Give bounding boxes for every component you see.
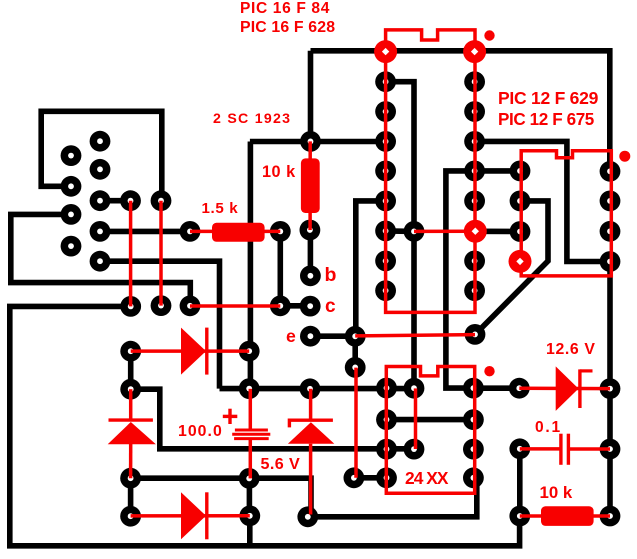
- red pad U1 mid: [464, 220, 487, 243]
- wire bottom rail to zener node: [131, 478, 311, 517]
- pad D3 top: [120, 379, 141, 400]
- diode D3: [108, 389, 156, 478]
- pad U1 pin9: [375, 280, 396, 301]
- wire pin2 jog: [386, 82, 414, 389]
- pad row16 c: [463, 467, 484, 488]
- wire zener feed: [473, 385, 519, 391]
- pad R1 right: [270, 221, 291, 242]
- pin1 dot U2: [619, 151, 630, 162]
- pad U1 pin17: [464, 71, 485, 92]
- red pad pin1 U1 left: [374, 40, 397, 63]
- wire row 16 link: [354, 475, 387, 481]
- pad connector B5: [90, 251, 111, 272]
- wire red link 7: [355, 335, 475, 336]
- wire ground run left: [11, 214, 191, 305]
- pad connector A1: [61, 145, 82, 166]
- pad R3 right: [600, 506, 621, 527]
- pad U2 pin3: [510, 221, 531, 242]
- pad C1 bottom: [239, 468, 260, 489]
- wire red link 1: [129, 201, 133, 307]
- pad U2 pin7: [600, 191, 621, 212]
- pad connector A3: [61, 204, 82, 225]
- pad node E3: [180, 295, 201, 316]
- wire diagonal pic12 pin5: [475, 201, 548, 334]
- pad connector A4: [61, 236, 82, 257]
- pad U3 pin8: [463, 378, 484, 399]
- label PIC 12 F 675: [498, 111, 594, 128]
- pad R3 left: [509, 506, 530, 527]
- pad R2 bottom: [300, 220, 321, 241]
- pad U3 pin7: [463, 409, 484, 430]
- pad node E1: [120, 296, 141, 317]
- pad diag node: [465, 324, 486, 345]
- pad row14 c: [463, 439, 484, 460]
- wire c stub: [280, 303, 310, 309]
- pad row16 a: [344, 467, 365, 488]
- pad U2 pin5: [600, 251, 621, 272]
- wire long vertical x250: [248, 142, 254, 389]
- pad row14 b: [404, 439, 425, 460]
- pad D1 right: [239, 341, 260, 362]
- red pad U2: [509, 250, 532, 273]
- capacitor C1 100uF electrolytic: [223, 389, 270, 479]
- wire bottom bus to 24xx pin: [308, 478, 477, 517]
- wire pic16 pin4 to pic12: [475, 141, 610, 261]
- diode D2: [131, 492, 250, 539]
- pad node G1: [404, 378, 425, 399]
- wire red link 4: [414, 229, 475, 233]
- pad node C2: [151, 190, 172, 211]
- pad U3 pin1: [376, 378, 397, 399]
- pad U1 pin14: [464, 161, 485, 182]
- pad U1 pin6: [375, 191, 396, 212]
- wire bottom border ground: [10, 306, 520, 545]
- pad row16 b: [376, 467, 397, 488]
- pad connector A2: [61, 176, 82, 197]
- label 24 XX: [405, 470, 448, 487]
- pad U1 pin16: [464, 101, 485, 122]
- pad Q1 c: [300, 296, 321, 317]
- wire pin8 link: [386, 228, 414, 234]
- socket outline 24XX U3: [386, 367, 474, 494]
- pad U2 pin2: [510, 191, 531, 212]
- pad Q1 b: [300, 265, 321, 286]
- label PIC 12 F 629: [498, 90, 598, 108]
- pad node C1: [120, 190, 141, 211]
- wire cap to border: [247, 516, 253, 546]
- wire left bus down: [100, 261, 220, 388]
- pad connector B3: [90, 190, 111, 211]
- pad U1 pin13: [464, 191, 485, 212]
- pad U1 pin2: [375, 71, 396, 92]
- wire connector link: [100, 198, 131, 204]
- pad node E4: [270, 295, 291, 316]
- pad D2 left: [120, 506, 141, 527]
- wire red link 2: [159, 201, 163, 306]
- wire emitter stub: [310, 333, 355, 339]
- wire collector drop: [308, 51, 314, 142]
- pad node D8: [404, 221, 425, 242]
- pad zener top: [300, 378, 321, 399]
- pad U2 pin6: [600, 221, 621, 242]
- resistor R2 10k: [301, 141, 320, 230]
- wire red link 3: [190, 304, 280, 308]
- wire right rail mid: [607, 262, 613, 389]
- pad U1 pin5: [375, 161, 396, 182]
- wire 1k5 column: [277, 231, 283, 305]
- pad connector B1: [90, 131, 111, 152]
- wire diode column link: [128, 351, 134, 389]
- label e: [286, 328, 296, 346]
- wire red link 6: [354, 368, 358, 478]
- pad U1 pin11: [464, 251, 485, 272]
- pad U3 pin2: [376, 409, 397, 430]
- label 10 k: [540, 485, 573, 502]
- label 2 SC 1923: [213, 112, 291, 126]
- pad C2 left: [509, 438, 530, 459]
- wire base resistor feed: [100, 229, 190, 235]
- wire emitter node link: [352, 336, 358, 367]
- capacitor C2 0.1: [520, 434, 610, 465]
- label 10 k: [262, 164, 296, 180]
- wire row 4 horizontal: [250, 139, 386, 145]
- wire 10k column: [517, 449, 523, 516]
- pad U1 pin3: [375, 101, 396, 122]
- wire pic16 to pic12 row: [475, 168, 520, 174]
- pad U1 pin8: [375, 251, 396, 272]
- diode D1: [131, 328, 250, 375]
- pad U1 pin10: [464, 280, 485, 301]
- wire red pad to pic12: [475, 229, 520, 235]
- label 12.6 V: [546, 342, 596, 358]
- pad zener bottom: [297, 506, 318, 527]
- zener diode 12.6V: [519, 366, 610, 411]
- wire right rail lower: [607, 389, 613, 516]
- label 1.5 k: [202, 201, 239, 216]
- wire top supply rail: [311, 51, 610, 172]
- wire row 13 horizontal: [220, 386, 415, 392]
- pin1 dot U1: [484, 30, 494, 40]
- label 5.6 V: [261, 456, 301, 472]
- pad D2 right: [239, 505, 260, 526]
- pad Q1 collector top: [300, 131, 321, 152]
- wire connector loop pin row: [41, 111, 162, 200]
- label 100.0: [178, 424, 223, 440]
- pad row14 a: [376, 439, 397, 460]
- pad U2 pin1: [510, 161, 531, 182]
- wire left column link: [128, 478, 134, 516]
- pad C2 right: [600, 439, 621, 460]
- wire cap negative link: [247, 478, 253, 515]
- zener diode 5.6V: [288, 389, 334, 515]
- wire 24xx row link: [387, 417, 474, 423]
- pad connector B2: [90, 159, 111, 180]
- label c: [325, 297, 336, 316]
- label PIC 16 F 84: [240, 1, 330, 17]
- pad U2 pin8: [600, 161, 621, 182]
- label b: [325, 266, 337, 286]
- pad zener12 right: [600, 378, 621, 399]
- resistor R3 10k: [520, 506, 610, 526]
- pad U1 pin15: [464, 131, 485, 152]
- wire red link 5: [414, 388, 418, 449]
- pad C1 top: [239, 378, 260, 399]
- pad node E2: [151, 295, 172, 316]
- resistor R1 1.5k: [190, 223, 280, 242]
- pad D1 left: [120, 341, 141, 362]
- pad emitter node: [345, 326, 366, 347]
- wire mid rail: [131, 389, 414, 449]
- pad connector B4: [90, 221, 111, 242]
- label PIC 16 F 628: [240, 20, 335, 36]
- wire pin7 to emitter node: [356, 201, 386, 336]
- pad link F1: [345, 357, 366, 378]
- pin1 dot U3: [484, 366, 494, 376]
- pad U1 pin7: [375, 221, 396, 242]
- red pad U1 right: [463, 40, 486, 63]
- label 0.1: [535, 420, 562, 436]
- op socket outline PIC16 U1: [386, 30, 475, 313]
- pad zener12 left: [509, 378, 530, 399]
- pad U1 pin4: [375, 131, 396, 152]
- pad D3 bottom: [120, 468, 141, 489]
- wire base link b: [308, 230, 314, 276]
- socket outline PIC12 U2: [521, 151, 611, 276]
- pad Q1 e: [300, 326, 321, 347]
- pad R1 left: [180, 221, 201, 242]
- wire pin6 long run: [446, 171, 475, 388]
